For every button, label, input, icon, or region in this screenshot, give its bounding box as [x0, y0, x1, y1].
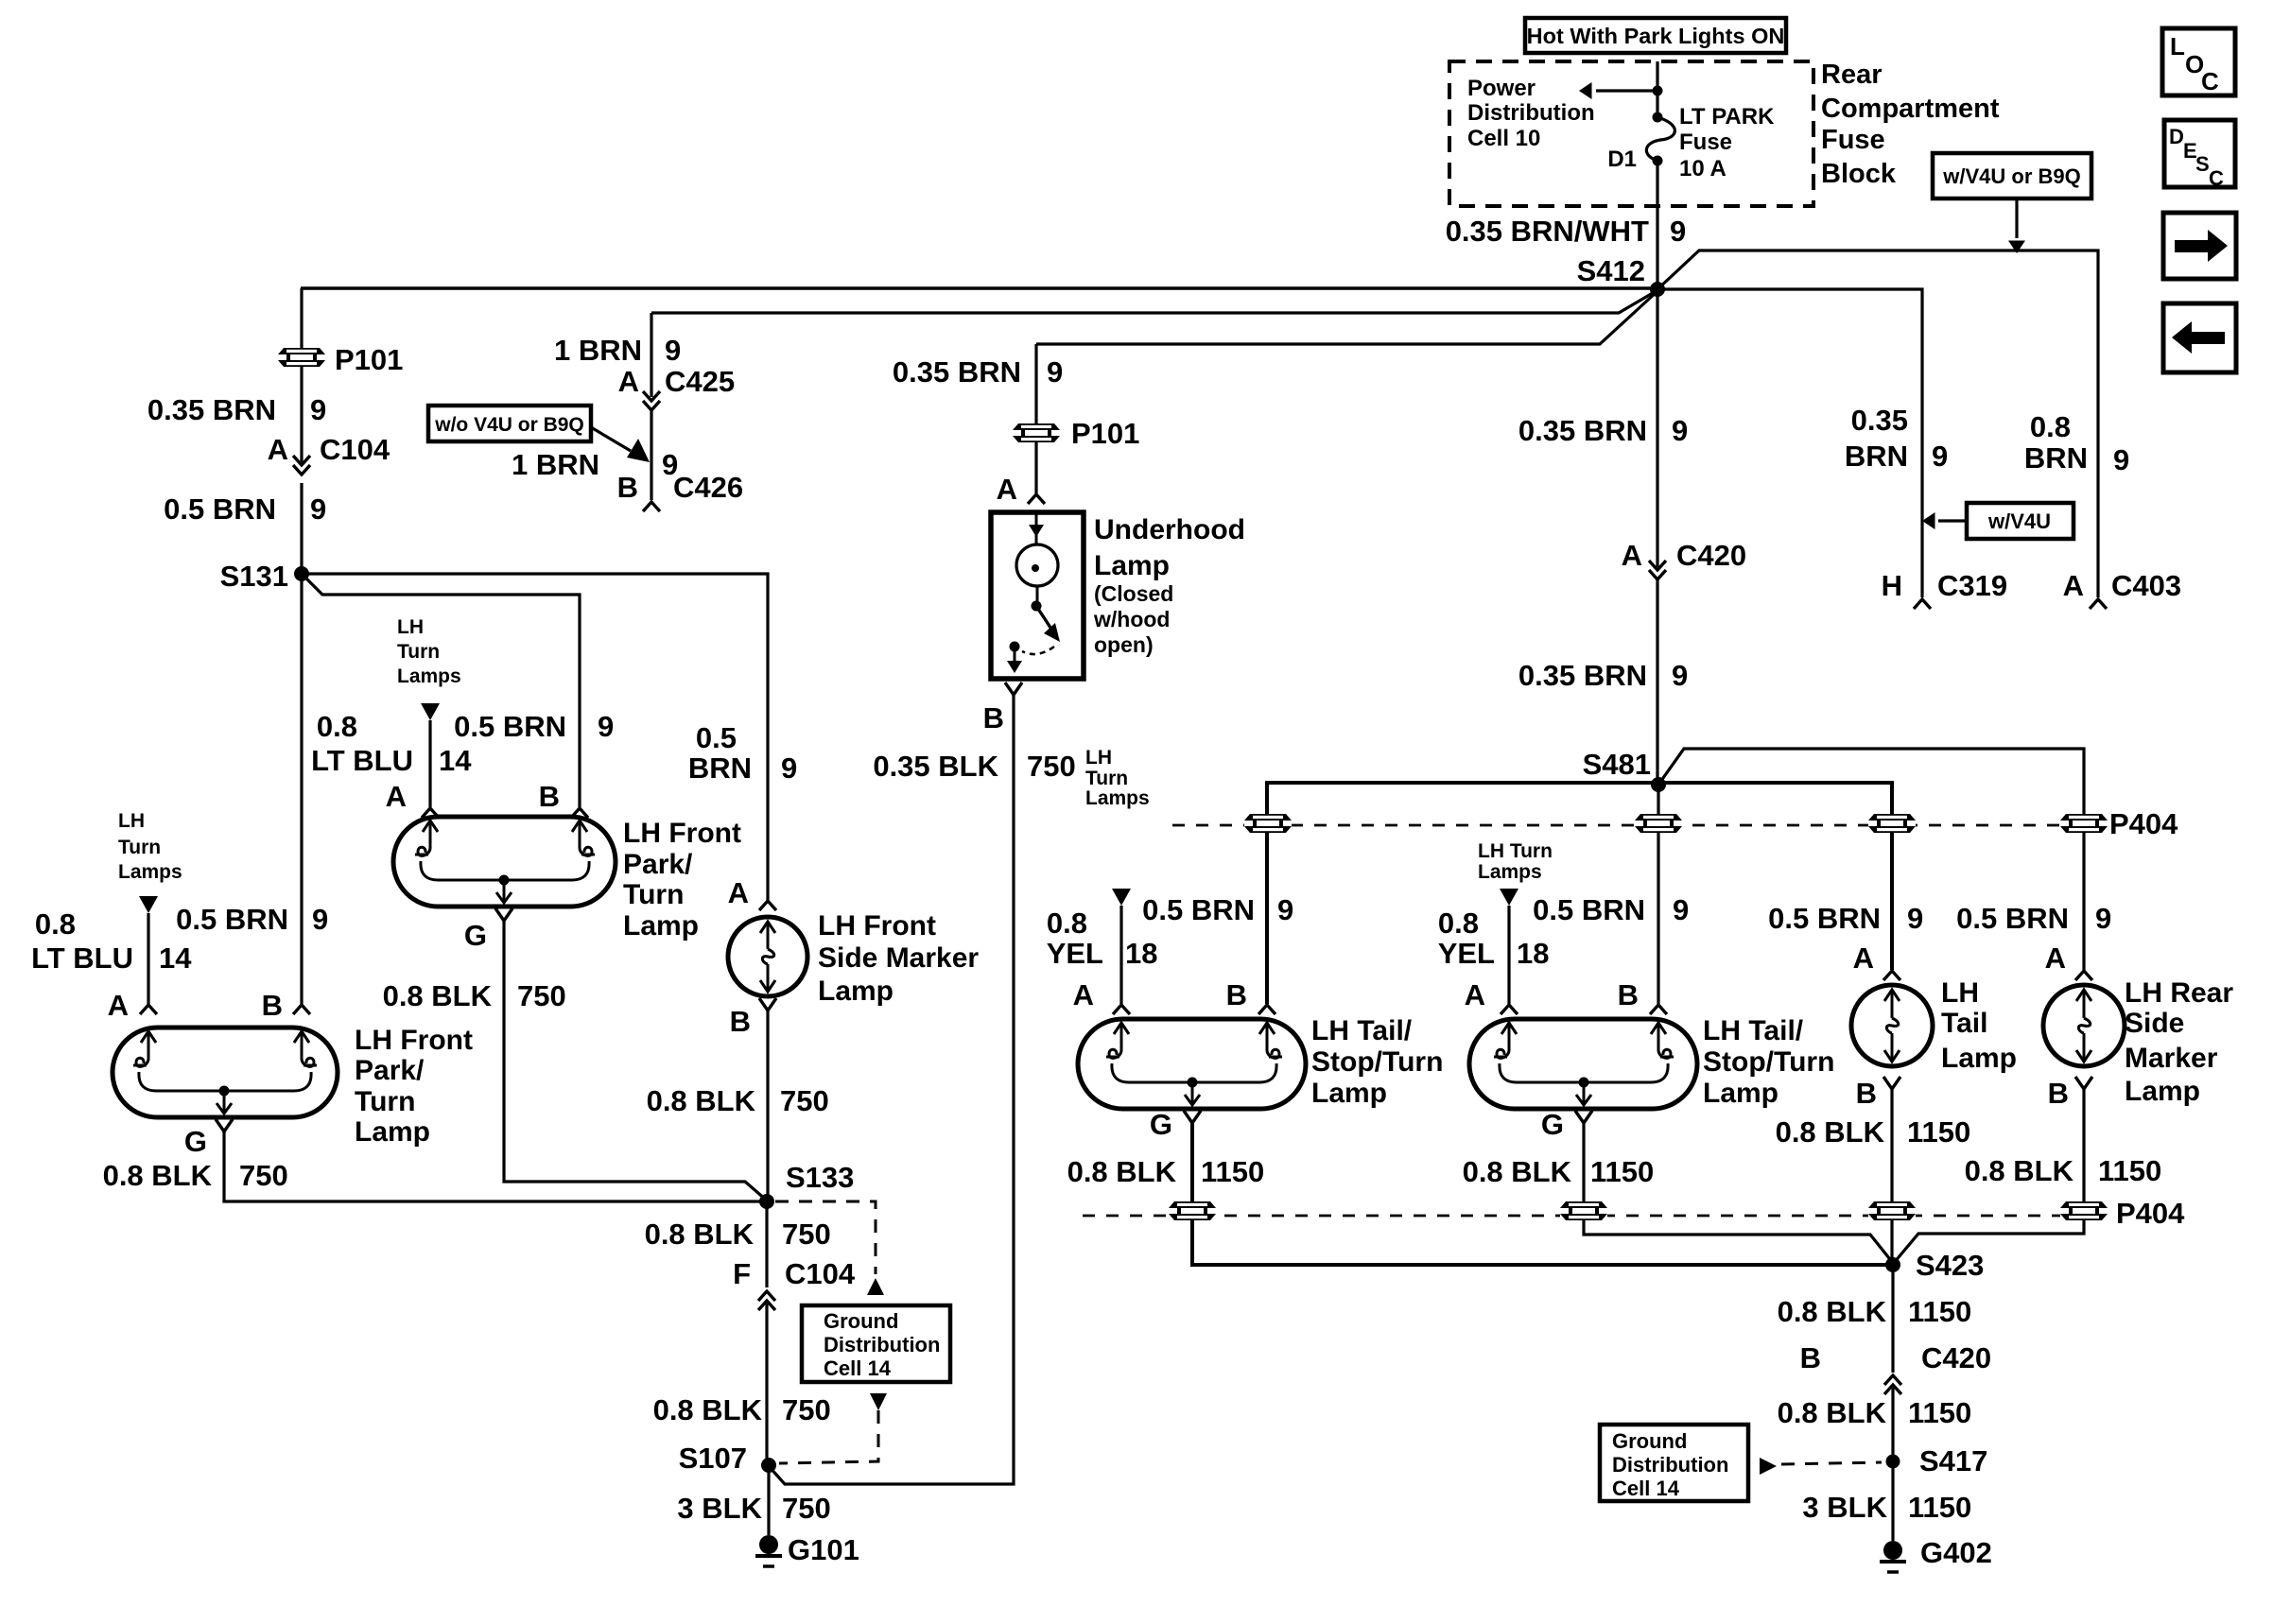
svg-text:S481: S481 — [1583, 748, 1651, 781]
svg-text:Turn: Turn — [1085, 768, 1128, 789]
svg-text:Cell 10: Cell 10 — [1467, 126, 1540, 151]
wire lower front lamp G to S133 — [224, 1132, 767, 1201]
svg-text:YEL: YEL — [1047, 937, 1103, 970]
svg-text:10 A: 10 A — [1679, 156, 1726, 181]
svg-text:LH Turn: LH Turn — [1478, 840, 1553, 862]
svg-text:A: A — [728, 876, 749, 909]
svg-text:14: 14 — [439, 744, 472, 777]
svg-text:BRN: BRN — [688, 752, 752, 785]
svg-text:3 BLK: 3 BLK — [677, 1492, 762, 1525]
wire C425 to C426 — [650, 410, 652, 500]
svg-text:LH Front: LH Front — [355, 1025, 473, 1056]
svg-text:G402: G402 — [1920, 1536, 1992, 1569]
svg-text:1150: 1150 — [1908, 1396, 1971, 1429]
reference arrow down — [870, 1393, 887, 1410]
wire turn feed to lamp pin A — [428, 720, 431, 807]
svg-text:Stop/Turn: Stop/Turn — [1703, 1046, 1834, 1078]
svg-text:Lamp: Lamp — [818, 976, 894, 1007]
svg-text:3 BLK: 3 BLK — [1802, 1491, 1887, 1524]
svg-text:0.35 BRN: 0.35 BRN — [893, 355, 1021, 389]
svg-text:Underhood: Underhood — [1094, 514, 1245, 545]
svg-text:L: L — [2170, 32, 2185, 60]
svg-text:Block: Block — [1821, 159, 1897, 189]
svg-text:D1: D1 — [1607, 147, 1637, 172]
wire first tail lamp G to S423 — [1192, 1123, 1893, 1265]
svg-text:0.8: 0.8 — [2030, 410, 2071, 443]
connector P404 (second tail lamp ground) — [1560, 1201, 1607, 1220]
wire S131 middle branch to second front park lamp — [302, 574, 580, 807]
wire upper front lamp G to S133 — [504, 921, 767, 1201]
svg-text:C425: C425 — [665, 365, 735, 398]
svg-text:Turn: Turn — [355, 1086, 415, 1117]
svg-text:w/hood: w/hood — [1093, 607, 1170, 631]
svg-text:750: 750 — [782, 1492, 831, 1525]
dashed reference from S133 to Ground Distribution Cell 14 — [775, 1201, 876, 1274]
fuse LT PARK 10A — [1653, 112, 1663, 123]
svg-text:0.5 BRN: 0.5 BRN — [1142, 893, 1255, 926]
svg-text:Ground: Ground — [1612, 1429, 1687, 1453]
svg-text:Lamp: Lamp — [1094, 550, 1170, 581]
lamp LH Tail Lamp — [1851, 985, 1933, 1066]
wire S481 down to second tail lamp pin B — [1657, 785, 1659, 1004]
wire S412 branch from C425 riser — [651, 290, 1657, 313]
svg-text:750: 750 — [782, 1393, 831, 1426]
svg-text:D: D — [2169, 125, 2184, 148]
svg-text:0.5 BRN: 0.5 BRN — [1956, 902, 2069, 935]
svg-text:B: B — [1226, 978, 1247, 1011]
svg-text:14: 14 — [159, 942, 192, 975]
wire LH tail lamp B to S423 — [1890, 1089, 1893, 1265]
svg-text:C426: C426 — [673, 471, 743, 504]
svg-text:Compartment: Compartment — [1821, 94, 2000, 124]
svg-text:Turn: Turn — [397, 641, 440, 663]
legend box LOC — [2162, 28, 2235, 95]
connector P404 (first tail lamp ground) — [1169, 1201, 1216, 1220]
svg-text:18: 18 — [1125, 937, 1157, 970]
svg-text:H: H — [1882, 569, 1902, 602]
svg-text:18: 18 — [1517, 937, 1549, 970]
svg-text:A: A — [268, 433, 288, 466]
svg-text:A: A — [2045, 942, 2066, 975]
connector P404 (rear marker feed) — [2060, 814, 2108, 833]
svg-text:YEL: YEL — [1438, 937, 1495, 970]
svg-text:F: F — [733, 1257, 751, 1290]
svg-text:G: G — [464, 919, 487, 952]
svg-text:0.35 BRN: 0.35 BRN — [1518, 414, 1647, 447]
lamp internal junction and ground arrow — [499, 875, 510, 886]
svg-text:LH Front: LH Front — [623, 818, 741, 849]
svg-text:Fuse: Fuse — [1821, 125, 1885, 155]
svg-text:Hot With Park Lights ON: Hot With Park Lights ON — [1527, 24, 1785, 48]
svg-text:C420: C420 — [1921, 1341, 1991, 1374]
svg-text:BRN: BRN — [1845, 440, 1908, 473]
connector P101 underhood — [1013, 423, 1060, 442]
svg-text:P101: P101 — [1071, 417, 1139, 450]
svg-text:0.35 BRN: 0.35 BRN — [147, 393, 276, 426]
svg-text:0.5 BRN: 0.5 BRN — [164, 492, 276, 526]
wire S131 down to first front park lamp pin B — [300, 574, 303, 1004]
svg-text:w/o V4U or B9Q: w/o V4U or B9Q — [434, 414, 584, 436]
wire S133 down to C104 F — [765, 1201, 768, 1287]
svg-text:Distribution: Distribution — [1612, 1453, 1728, 1477]
lamp LH Tail/Stop/Turn Lamp (first) — [1078, 1019, 1306, 1109]
option box w/V4U or B9Q with arrow down — [1933, 153, 2091, 199]
svg-text:G: G — [1541, 1108, 1564, 1141]
lamp internal junction and ground arrow — [1188, 1078, 1198, 1088]
svg-text:0.5: 0.5 — [696, 721, 737, 754]
svg-text:G: G — [1150, 1108, 1172, 1141]
svg-text:B: B — [983, 701, 1004, 734]
turn feed triangle mid-left — [421, 703, 440, 720]
dashed pass-through row P404 upper — [1172, 824, 2101, 827]
svg-text:Distribution: Distribution — [824, 1333, 940, 1356]
svg-text:Cell 14: Cell 14 — [1612, 1477, 1680, 1500]
svg-text:750: 750 — [780, 1084, 829, 1117]
svg-text:0.8 BLK: 0.8 BLK — [1067, 1155, 1177, 1188]
svg-text:0.5 BRN: 0.5 BRN — [454, 710, 566, 743]
svg-text:0.8 BLK: 0.8 BLK — [1463, 1155, 1572, 1188]
svg-text:Lamps: Lamps — [118, 861, 182, 883]
svg-text:Distribution: Distribution — [1467, 100, 1595, 126]
svg-text:0.8: 0.8 — [317, 710, 357, 743]
lamp LH Front Side Marker Lamp — [728, 917, 807, 996]
svg-text:S423: S423 — [1916, 1249, 1984, 1282]
svg-text:S412: S412 — [1577, 254, 1645, 287]
svg-text:Lamp: Lamp — [1703, 1078, 1778, 1109]
wire turn feed to pin A — [1507, 906, 1510, 1004]
svg-text:G101: G101 — [788, 1533, 859, 1566]
wire turn feed to pin A — [1119, 906, 1122, 1004]
svg-text:P404: P404 — [2116, 1197, 2185, 1230]
svg-text:1150: 1150 — [1590, 1155, 1654, 1188]
lamp LH Rear Side Marker Lamp — [2043, 985, 2125, 1066]
svg-text:LT BLU: LT BLU — [31, 942, 133, 975]
svg-text:0.35 BLK: 0.35 BLK — [873, 750, 998, 783]
svg-text:Lamp: Lamp — [2125, 1076, 2200, 1107]
svg-text:B: B — [617, 471, 638, 504]
box Ground Distribution Cell 14 (left) — [802, 1305, 950, 1382]
svg-text:B: B — [539, 780, 560, 813]
svg-text:750: 750 — [782, 1218, 831, 1251]
svg-text:C: C — [2209, 166, 2224, 190]
svg-text:Lamp: Lamp — [355, 1116, 430, 1148]
svg-text:LH: LH — [118, 810, 145, 832]
svg-text:1150: 1150 — [1908, 1491, 1971, 1524]
dashed reference to S107 — [779, 1410, 878, 1463]
svg-text:0.8 BLK: 0.8 BLK — [653, 1393, 763, 1426]
svg-text:P404: P404 — [2109, 807, 2178, 840]
svg-text:Lamp: Lamp — [1311, 1078, 1387, 1109]
svg-text:9: 9 — [665, 334, 681, 367]
option box w/V4U with arrow left to C319 wire — [1967, 503, 2073, 539]
svg-text:9: 9 — [312, 903, 328, 936]
svg-text:LH: LH — [1085, 747, 1112, 769]
svg-text:750: 750 — [517, 979, 566, 1012]
svg-text:9: 9 — [2113, 443, 2129, 476]
svg-text:LT PARK: LT PARK — [1679, 104, 1775, 130]
svg-text:Lamp: Lamp — [623, 910, 699, 942]
lamp LH Front Park/Turn Lamp (lower) — [113, 1028, 338, 1117]
svg-text:9: 9 — [310, 393, 326, 426]
connector P404 (rear marker ground) — [2060, 1201, 2108, 1220]
svg-text:9: 9 — [781, 752, 797, 785]
svg-text:S: S — [2195, 152, 2210, 176]
wire side marker B to S133 — [766, 1011, 769, 1201]
svg-text:0.8 BLK: 0.8 BLK — [1778, 1295, 1887, 1328]
svg-text:S133: S133 — [786, 1161, 854, 1194]
wire S423 down to C420 B — [1891, 1265, 1894, 1373]
svg-text:0.8 BLK: 0.8 BLK — [1965, 1154, 2074, 1187]
svg-text:0.35 BRN/WHT: 0.35 BRN/WHT — [1446, 215, 1649, 248]
svg-text:Lamps: Lamps — [1478, 861, 1542, 883]
svg-text:Side: Side — [2125, 1008, 2184, 1039]
svg-text:C403: C403 — [2111, 569, 2181, 602]
lamp internal junction and ground arrow — [1579, 1078, 1589, 1088]
svg-text:C104: C104 — [785, 1257, 856, 1290]
svg-text:LT BLU: LT BLU — [311, 744, 413, 777]
legend box right arrow — [2163, 213, 2236, 279]
wire underhood lamp B to S107 — [769, 695, 1014, 1484]
svg-text:Lamps: Lamps — [1085, 787, 1150, 809]
svg-text:LH Tail/: LH Tail/ — [1703, 1015, 1804, 1046]
svg-text:LH: LH — [1941, 977, 1979, 1009]
svg-text:Park/: Park/ — [355, 1055, 425, 1086]
wire second tail lamp G to S423 — [1584, 1123, 1893, 1263]
wire riser to P101 underhood — [1034, 344, 1037, 424]
svg-text:open): open) — [1094, 632, 1154, 657]
svg-text:A: A — [1853, 942, 1874, 975]
lamp LH Tail/Stop/Turn Lamp (second) — [1469, 1019, 1697, 1109]
wire S412 right branch to C319 — [1657, 289, 1922, 597]
legend box left arrow — [2163, 303, 2236, 372]
svg-text:9: 9 — [598, 710, 614, 743]
wire into fuse block from top — [1656, 61, 1658, 117]
svg-text:0.8 BLK: 0.8 BLK — [647, 1084, 756, 1117]
svg-text:Lamp: Lamp — [1941, 1043, 2017, 1074]
svg-text:S107: S107 — [679, 1442, 747, 1475]
svg-text:0.8 BLK: 0.8 BLK — [103, 1159, 213, 1192]
option box w/o V4U or B9Q with arrow — [428, 406, 591, 441]
svg-text:B: B — [262, 989, 283, 1022]
svg-text:B: B — [1856, 1077, 1877, 1110]
svg-text:LH Front: LH Front — [818, 910, 936, 942]
svg-text:B: B — [2048, 1077, 2069, 1110]
svg-text:750: 750 — [1027, 750, 1076, 783]
wire C104 F to S107 — [765, 1304, 768, 1465]
turn feed triangle second tail lamp — [1500, 889, 1518, 906]
wire S412 down to C420 — [1656, 289, 1658, 567]
svg-text:Power: Power — [1467, 76, 1536, 101]
svg-text:0.8 BLK: 0.8 BLK — [383, 979, 493, 1012]
svg-text:Marker: Marker — [2125, 1043, 2218, 1074]
svg-text:1150: 1150 — [1908, 1295, 1971, 1328]
svg-text:A: A — [618, 365, 639, 398]
svg-text:1150: 1150 — [1201, 1155, 1264, 1188]
wire S107 to ground G101 — [767, 1465, 770, 1535]
svg-text:A: A — [108, 989, 129, 1022]
connector P404 (tail lamp ground) — [1868, 1201, 1916, 1220]
svg-text:9: 9 — [1672, 659, 1688, 692]
wire top-left riser to P101 left — [300, 288, 303, 574]
svg-text:0.8: 0.8 — [1438, 907, 1479, 940]
ground G402 — [1880, 1541, 1906, 1572]
svg-text:B: B — [730, 1005, 751, 1038]
svg-text:S417: S417 — [1919, 1444, 1987, 1477]
svg-text:9: 9 — [1047, 355, 1063, 389]
svg-text:P101: P101 — [335, 343, 403, 376]
svg-text:1 BRN: 1 BRN — [512, 448, 599, 481]
svg-text:(Closed: (Closed — [1094, 581, 1173, 606]
reference arrow up — [867, 1278, 884, 1295]
svg-text:LH: LH — [397, 616, 424, 638]
svg-text:0.35 BRN: 0.35 BRN — [1518, 659, 1647, 692]
label box: Hot With Park Lights ON — [1525, 18, 1786, 53]
svg-text:9: 9 — [310, 492, 326, 526]
legend box DESC — [2164, 120, 2235, 187]
svg-text:Fuse: Fuse — [1679, 130, 1732, 155]
connector P404 (main feed) — [1635, 814, 1682, 833]
wire C420 down to S481 — [1656, 579, 1658, 785]
wire S481 left branch to first tail lamp pin B — [1267, 783, 1658, 1004]
svg-text:Side Marker: Side Marker — [818, 942, 979, 974]
svg-text:0.5 BRN: 0.5 BRN — [1768, 902, 1881, 935]
wire fuse to S412 — [1656, 161, 1658, 289]
wire C425 riser — [650, 313, 652, 397]
wire S412 branch from P101 underhood riser — [1036, 291, 1657, 344]
svg-text:9: 9 — [1672, 414, 1688, 447]
svg-text:1 BRN: 1 BRN — [554, 334, 642, 367]
svg-text:Turn: Turn — [623, 879, 684, 910]
svg-text:750: 750 — [239, 1159, 288, 1192]
svg-text:Turn: Turn — [118, 837, 161, 858]
svg-text:9: 9 — [1907, 902, 1923, 935]
svg-text:0.8 BLK: 0.8 BLK — [645, 1218, 755, 1251]
svg-text:LH Tail/: LH Tail/ — [1311, 1015, 1413, 1046]
arrow to Power Distribution Cell 10 — [1596, 89, 1657, 92]
svg-text:Rear: Rear — [1821, 60, 1883, 90]
svg-text:1150: 1150 — [2098, 1154, 2161, 1187]
svg-text:Park/: Park/ — [623, 849, 693, 880]
reference arrow right and dashed line to S417 — [1760, 1458, 1777, 1475]
ground G101 — [755, 1535, 782, 1566]
wire S481 right branch to LH tail lamp — [1658, 783, 1892, 970]
svg-text:Cell 14: Cell 14 — [824, 1356, 892, 1380]
wire S417 to ground G402 — [1891, 1461, 1894, 1541]
svg-text:w/V4U: w/V4U — [1987, 510, 2051, 533]
svg-text:0.35: 0.35 — [1851, 404, 1908, 437]
svg-text:G: G — [184, 1125, 207, 1158]
dashed pass-through row P404 lower — [1083, 1215, 2101, 1218]
lamp LH Front Park/Turn Lamp (upper) — [393, 817, 616, 907]
connector P404 (tail lamp B feed) — [1244, 814, 1292, 833]
svg-text:0.8: 0.8 — [1047, 907, 1087, 940]
box Ground Distribution Cell 14 (right) — [1600, 1425, 1748, 1501]
svg-text:A: A — [386, 780, 407, 813]
connector P404 (tail lamp feed) — [1868, 814, 1916, 833]
svg-text:C104: C104 — [320, 433, 390, 466]
svg-text:0.5 BRN: 0.5 BRN — [176, 903, 288, 936]
turn feed triangle first tail lamp — [1112, 889, 1131, 906]
wire rear side marker B to S423 — [1894, 1089, 2084, 1263]
wire S412 long left feed to P101 left — [301, 286, 1657, 289]
svg-text:0.5 BRN: 0.5 BRN — [1533, 893, 1645, 926]
svg-text:0.8 BLK: 0.8 BLK — [1778, 1396, 1887, 1429]
svg-text:C420: C420 — [1676, 539, 1746, 572]
wire S412 upper branch to C403 — [1657, 251, 2098, 597]
svg-text:C319: C319 — [1937, 569, 2007, 602]
svg-text:B: B — [1618, 978, 1639, 1011]
wire turn feed to lamp pin A — [147, 913, 149, 1004]
svg-text:C: C — [2201, 67, 2219, 95]
svg-text:Ground: Ground — [824, 1309, 898, 1333]
svg-text:w/V4U or B9Q: w/V4U or B9Q — [1942, 164, 2080, 188]
svg-text:A: A — [1465, 978, 1485, 1011]
svg-text:A: A — [1073, 978, 1094, 1011]
wire P101 to underhood lamp pin A — [1034, 441, 1037, 493]
svg-text:LH Rear: LH Rear — [2125, 977, 2233, 1009]
Rear Compartment Fuse Block dashed box — [1449, 61, 1813, 206]
underhood lamp switch box — [991, 512, 1084, 679]
lamp internal junction and ground arrow — [219, 1086, 230, 1097]
svg-text:BRN: BRN — [2024, 441, 2088, 475]
svg-text:Stop/Turn: Stop/Turn — [1311, 1046, 1443, 1078]
svg-text:A: A — [2063, 569, 2084, 602]
svg-text:A: A — [997, 473, 1017, 506]
svg-text:9: 9 — [1277, 893, 1293, 926]
svg-text:S131: S131 — [220, 560, 288, 593]
svg-text:B: B — [1800, 1341, 1821, 1374]
wire S481 upper branch to LH rear side marker lamp — [1658, 749, 2084, 970]
svg-text:9: 9 — [1932, 440, 1948, 473]
svg-text:Lamps: Lamps — [397, 665, 461, 687]
svg-text:A: A — [1622, 539, 1642, 572]
svg-text:0.8 BLK: 0.8 BLK — [1776, 1115, 1885, 1149]
svg-text:9: 9 — [1673, 893, 1689, 926]
svg-text:9: 9 — [2095, 902, 2111, 935]
wire C420 B to S417 — [1891, 1388, 1894, 1461]
svg-text:1150: 1150 — [1907, 1115, 1970, 1149]
svg-text:Tail: Tail — [1941, 1008, 1987, 1039]
svg-text:0.8: 0.8 — [35, 907, 76, 941]
svg-text:9: 9 — [1670, 215, 1686, 248]
underhood lamp internals — [1007, 512, 1060, 673]
turn feed triangle bottom-left — [139, 896, 158, 913]
wire S131 right branch to LH front side marker lamp — [302, 574, 768, 900]
connector P101 left — [278, 348, 325, 367]
